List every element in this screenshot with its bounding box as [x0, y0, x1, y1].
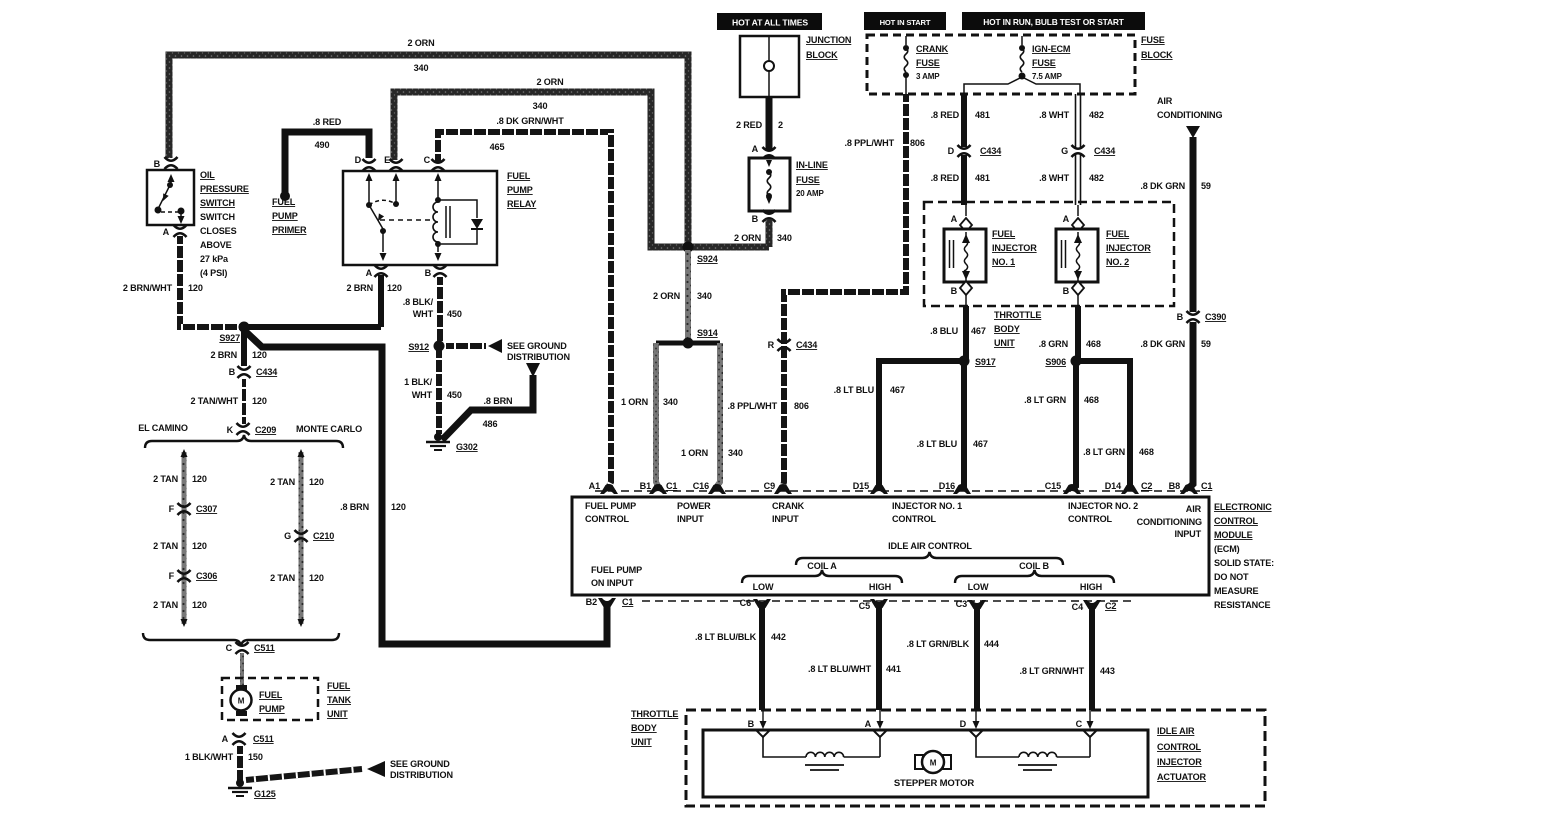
svg-text:443: 443: [1100, 666, 1115, 676]
label 120 (.8 BRN): [391, 502, 406, 512]
svg-text:PRESSURE: PRESSURE: [200, 184, 249, 194]
label FUEL (inj 1): [992, 229, 1016, 239]
label 340 (right drop): [728, 448, 743, 458]
svg-text:C5: C5: [859, 601, 870, 611]
svg-text:A1: A1: [589, 481, 600, 491]
svg-text:PUMP: PUMP: [507, 185, 533, 195]
label 2 TAN (EC lower): [153, 600, 178, 610]
svg-text:HOT IN START: HOT IN START: [880, 18, 931, 27]
svg-text:UNIT: UNIT: [631, 737, 652, 747]
svg-text:2 TAN: 2 TAN: [153, 541, 178, 551]
connector C390 (B): [1177, 311, 1227, 323]
svg-text:WHT: WHT: [412, 390, 433, 400]
svg-text:ON INPUT: ON INPUT: [591, 578, 634, 588]
terminal C of relay: [424, 155, 445, 171]
label MODULE: [1214, 530, 1253, 540]
oil pressure switch lower arrow: [178, 211, 185, 224]
terminal A of in-line fuse: [752, 144, 776, 159]
label WHT (relay B): [413, 309, 434, 319]
label (ECM): [1214, 544, 1240, 554]
label AIR CONDITIONING INPUT: [1137, 504, 1202, 539]
label 1 ORN (left drop): [621, 397, 648, 407]
label ELECTRONIC: [1214, 502, 1272, 512]
label INJECTOR (actuator): [1157, 757, 1202, 767]
injector assembly dashed box: [924, 202, 1174, 306]
label 467 (.8 BLU): [971, 326, 986, 336]
svg-text:FUEL: FUEL: [507, 171, 531, 181]
svg-text:120: 120: [391, 502, 406, 512]
svg-text:A: A: [752, 144, 759, 154]
svg-text:BLOCK: BLOCK: [1141, 50, 1173, 60]
wire .8 LT BLU 467 (S917 to D15): [879, 361, 964, 486]
label 467 (D16): [973, 439, 988, 449]
svg-text:SWITCH: SWITCH: [200, 198, 235, 208]
label CLOSES: [200, 226, 237, 236]
svg-text:.8 LT BLU: .8 LT BLU: [917, 439, 958, 449]
label CONTROL (actuator): [1157, 742, 1202, 752]
svg-text:.8 LT BLU/WHT: .8 LT BLU/WHT: [808, 664, 872, 674]
svg-text:D: D: [960, 719, 967, 729]
svg-text:EL CAMINO: EL CAMINO: [138, 423, 188, 433]
label 1 ORN (right drop): [681, 448, 708, 458]
label 120 (S927 drop): [252, 350, 267, 360]
label 443: [1100, 666, 1115, 676]
svg-text:2 BRN: 2 BRN: [346, 283, 373, 293]
arrow to ground distribution (S912): [488, 339, 502, 353]
brace COIL B: [955, 570, 1114, 583]
terminal D of relay: [355, 155, 376, 171]
ECM terminal C9: [764, 481, 792, 494]
label 2 TAN (EC upper): [153, 474, 178, 484]
label .8 RED (upper): [931, 110, 960, 120]
label 1 BLK/ (G302): [404, 377, 433, 387]
svg-text:COIL B: COIL B: [1019, 561, 1049, 571]
svg-text:1 BLK/: 1 BLK/: [404, 377, 433, 387]
actuator coil B core: [1018, 765, 1057, 770]
label 2 ORN (relay E run): [536, 77, 563, 87]
label INJECTOR NO. 1 CONTROL: [892, 501, 962, 524]
svg-text:INJECTOR: INJECTOR: [1106, 243, 1151, 253]
label IGN-ECM: [1032, 44, 1070, 54]
wire .8 BLK/WHT 450 (relay B to S912): [437, 277, 443, 341]
label 340 (left drop): [663, 397, 678, 407]
label .8 LT GRN/BLK: [906, 639, 969, 649]
label .8 DK GRN (upper): [1140, 181, 1185, 191]
svg-text:HOT IN RUN, BULB TEST OR START: HOT IN RUN, BULB TEST OR START: [983, 17, 1125, 27]
label 486: [483, 419, 498, 429]
relay diode: [471, 219, 483, 229]
label 3 AMP: [916, 72, 940, 81]
svg-text:.8 LT GRN: .8 LT GRN: [1024, 395, 1066, 405]
svg-text:THROTTLE: THROTTLE: [631, 709, 678, 719]
label 120 (2 BRN/WHT): [188, 283, 203, 293]
svg-text:CONTROL: CONTROL: [1214, 516, 1259, 526]
wire 2 TAN (Monte Carlo drop): [298, 449, 305, 627]
svg-text:.8 RED: .8 RED: [931, 110, 960, 120]
label FUEL (tank unit): [327, 681, 351, 691]
svg-text:ACTUATOR: ACTUATOR: [1157, 772, 1207, 782]
svg-text:S927: S927: [219, 333, 240, 343]
label 1 BLK/WHT (G125): [185, 752, 234, 762]
wire 1 BLK/WHT 150 (to G125): [237, 746, 243, 781]
label 120 (EC mid): [192, 541, 207, 551]
actuator terminal C: [1076, 710, 1097, 737]
svg-text:.8 DK GRN: .8 DK GRN: [1140, 339, 1185, 349]
label RESISTANCE: [1214, 600, 1271, 610]
svg-text:FUSE: FUSE: [1141, 35, 1165, 45]
svg-text:C: C: [226, 643, 233, 653]
label .8 WHT (lower): [1039, 173, 1070, 183]
svg-text:A: A: [951, 214, 958, 224]
label 120 (2 TAN/WHT): [252, 396, 267, 406]
label INJECTOR NO. 2 CONTROL: [1068, 501, 1138, 524]
label DISTRIBUTION (G125): [390, 770, 453, 780]
label 120 (EC lower): [192, 600, 207, 610]
label EL CAMINO: [138, 423, 188, 433]
svg-text:G125: G125: [254, 789, 276, 799]
svg-text:B: B: [1177, 312, 1184, 322]
svg-text:441: 441: [886, 664, 901, 674]
actuator coil B: [976, 737, 1090, 757]
svg-text:FUEL PUMP: FUEL PUMP: [591, 565, 642, 575]
ground distribution stub (S912): [446, 343, 486, 349]
label A (injector 2): [1063, 214, 1070, 224]
svg-text:G: G: [284, 531, 291, 541]
label IDLE AIR: [1157, 726, 1195, 736]
svg-text:340: 340: [533, 101, 548, 111]
svg-text:BODY: BODY: [994, 324, 1020, 334]
svg-text:B: B: [752, 214, 759, 224]
label 441: [886, 664, 901, 674]
label 340 (fuse B): [777, 233, 792, 243]
wire 1 ORN 340 (S914 to C16): [717, 343, 720, 486]
wire 1 BLK/WHT 450 (S912 to G302): [436, 350, 442, 434]
wire 2 RED 2 (junction block to fuse): [766, 98, 773, 150]
relay wire to B: [435, 244, 442, 261]
svg-text:806: 806: [794, 401, 809, 411]
svg-text:450: 450: [447, 309, 462, 319]
relay dashed link to coil: [380, 219, 432, 221]
relay D contact: [366, 173, 373, 208]
svg-text:S912: S912: [408, 342, 429, 352]
relay E contact: [393, 173, 400, 207]
ECM terminal C16: [693, 481, 726, 494]
label .8 DK GRN (lower): [1140, 339, 1185, 349]
stepper motor: [915, 751, 951, 773]
svg-text:SEE GROUND: SEE GROUND: [507, 341, 567, 351]
ECM terminal D16: [939, 481, 971, 494]
svg-text:468: 468: [1086, 339, 1101, 349]
svg-text:INJECTOR NO. 2: INJECTOR NO. 2: [1068, 501, 1138, 511]
label S914: [697, 328, 719, 338]
svg-text:340: 340: [663, 397, 678, 407]
relay dashed arc D-E: [369, 200, 396, 205]
label .8 LT GRN (D14): [1083, 447, 1125, 457]
wire .8 LT BLU/BLK 442 (C6): [759, 607, 765, 710]
svg-text:FUEL: FUEL: [327, 681, 351, 691]
svg-text:2 TAN: 2 TAN: [153, 474, 178, 484]
label 20 AMP: [796, 189, 825, 198]
oil pressure switch box: [147, 170, 194, 225]
label S924: [697, 254, 719, 264]
svg-text:.8 LT GRN/BLK: .8 LT GRN/BLK: [906, 639, 969, 649]
relay coil bottom dot: [435, 241, 441, 247]
svg-text:JUNCTION: JUNCTION: [806, 35, 851, 45]
wire 2 ORN 340 (junction block feed, top run): [169, 55, 688, 244]
ECM terminal C3: [956, 599, 986, 610]
label 120 (EC upper): [192, 474, 207, 484]
terminal A of relay: [366, 265, 388, 278]
label 2 BRN/WHT: [123, 283, 173, 293]
svg-text:INPUT: INPUT: [1174, 529, 1201, 539]
label 481 (upper): [975, 110, 990, 120]
svg-text:C1: C1: [1201, 481, 1212, 491]
actuator coil A: [763, 737, 880, 757]
label IN-LINE: [796, 160, 828, 170]
connector C210 (G): [284, 530, 334, 542]
banner HOT AT ALL TIMES: [717, 13, 822, 30]
label PRESSURE: [200, 184, 249, 194]
svg-text:C434: C434: [1094, 146, 1116, 156]
svg-text:FUEL: FUEL: [992, 229, 1016, 239]
svg-text:FUSE: FUSE: [1032, 58, 1056, 68]
label RELAY (relay): [507, 199, 536, 209]
svg-text:M: M: [238, 697, 245, 706]
svg-text:PRIMER: PRIMER: [272, 225, 307, 235]
label 806 (lower): [794, 401, 809, 411]
svg-text:120: 120: [192, 600, 207, 610]
label S927: [219, 333, 240, 343]
label THROTTLE (tbu lower): [631, 709, 678, 719]
actuator terminal A: [865, 710, 887, 737]
label CRANK: [916, 44, 949, 54]
label DISTRIBUTION (S912): [507, 352, 570, 362]
label CRANK INPUT: [772, 501, 805, 524]
label FUEL (primer): [272, 197, 296, 207]
svg-text:DISTRIBUTION: DISTRIBUTION: [507, 352, 570, 362]
relay coil top dot: [435, 197, 441, 203]
ECM box: [572, 497, 1209, 595]
svg-text:CONTROL: CONTROL: [892, 514, 937, 524]
label 481 (lower): [975, 173, 990, 183]
label .8 LT BLU/WHT: [808, 664, 872, 674]
label 2 ORN (S924-S914): [653, 291, 680, 301]
label FUEL (relay): [507, 171, 531, 181]
svg-text:C1: C1: [666, 481, 677, 491]
in-line fuse element: [766, 160, 772, 204]
svg-text:A: A: [366, 268, 373, 278]
fuel pump relay box: [343, 171, 497, 265]
label SWITCH: [200, 212, 235, 222]
svg-text:.8 GRN: .8 GRN: [1039, 339, 1068, 349]
svg-text:UNIT: UNIT: [994, 338, 1015, 348]
svg-text:.8 PPL/WHT: .8 PPL/WHT: [844, 138, 894, 148]
svg-text:FUSE: FUSE: [796, 175, 820, 185]
ground distribution arrow (down): [526, 363, 540, 377]
svg-text:RESISTANCE: RESISTANCE: [1214, 600, 1271, 610]
svg-text:444: 444: [984, 639, 1000, 649]
label 468 (D14): [1139, 447, 1154, 457]
svg-text:467: 467: [971, 326, 986, 336]
label UNIT (tank unit): [327, 709, 348, 719]
label 27 kPa: [200, 254, 229, 264]
label STEPPER MOTOR: [894, 778, 975, 789]
svg-text:SEE GROUND: SEE GROUND: [390, 759, 450, 769]
svg-text:.8 LT GRN: .8 LT GRN: [1083, 447, 1125, 457]
ECM terminal D14: [1105, 481, 1153, 494]
svg-text:NO. 2: NO. 2: [1106, 257, 1129, 267]
svg-text:2 BRN/WHT: 2 BRN/WHT: [123, 283, 173, 293]
label INJECTOR (inj 1): [992, 243, 1037, 253]
svg-text:D15: D15: [853, 481, 869, 491]
relay armature: [369, 205, 384, 229]
svg-text:481: 481: [975, 110, 990, 120]
svg-text:INPUT: INPUT: [772, 514, 799, 524]
svg-text:F: F: [169, 504, 175, 514]
svg-text:D16: D16: [939, 481, 955, 491]
svg-text:C434: C434: [256, 367, 278, 377]
svg-text:B8: B8: [1169, 481, 1180, 491]
wire .8 DK GRN 59 (C390 to B8): [1189, 322, 1193, 488]
svg-text:.8 WHT: .8 WHT: [1039, 173, 1070, 183]
svg-text:467: 467: [890, 385, 905, 395]
svg-text:806: 806: [910, 138, 925, 148]
svg-text:465: 465: [490, 142, 505, 152]
connector C434 (D): [948, 145, 1003, 157]
wire .8 LT GRN/WHT 443 (C4): [1089, 607, 1095, 710]
label .8 PPL/WHT (lower): [727, 401, 777, 411]
svg-text:1 ORN: 1 ORN: [621, 397, 648, 407]
ECM terminal dashed line (bottom): [642, 600, 1135, 602]
label .8 LT BLU (D16): [917, 439, 958, 449]
svg-text:1 BLK/WHT: 1 BLK/WHT: [185, 752, 234, 762]
svg-text:C: C: [1076, 719, 1083, 729]
label FUEL PUMP ON INPUT: [591, 565, 642, 588]
svg-text:.8 WHT: .8 WHT: [1039, 110, 1070, 120]
wire .8 BLU 467 (injector 1 B down): [963, 306, 969, 359]
svg-text:A: A: [865, 719, 872, 729]
label SEE GROUND (S912): [507, 341, 567, 351]
svg-text:C3: C3: [956, 599, 967, 609]
svg-text:59: 59: [1201, 181, 1211, 191]
svg-text:C2: C2: [1141, 481, 1152, 491]
svg-text:120: 120: [387, 283, 402, 293]
label OIL: [200, 170, 215, 180]
junction block box: [740, 36, 799, 97]
label .8 LT BLU/BLK: [695, 632, 757, 642]
svg-text:CONDITIONING: CONDITIONING: [1137, 517, 1202, 527]
terminal A of oil pressure switch: [163, 225, 187, 237]
svg-text:K: K: [227, 425, 234, 435]
wire tank feed (C511 to fuel pump): [240, 653, 244, 688]
svg-text:INJECTOR: INJECTOR: [992, 243, 1037, 253]
air conditioning arrow: [1186, 126, 1200, 138]
svg-text:2 ORN: 2 ORN: [536, 77, 563, 87]
svg-text:.8 BLK/: .8 BLK/: [403, 297, 434, 307]
svg-text:G: G: [1061, 146, 1068, 156]
svg-text:BODY: BODY: [631, 723, 657, 733]
relay armature dot: [380, 228, 386, 234]
label IDLE AIR CONTROL: [888, 541, 972, 551]
svg-text:2 ORN: 2 ORN: [407, 38, 434, 48]
svg-text:340: 340: [414, 63, 429, 73]
label FUSE (crank): [916, 58, 940, 68]
svg-text:SWITCH: SWITCH: [200, 212, 235, 222]
label FUEL (pump): [259, 690, 283, 700]
connector C511 (C): [226, 642, 275, 654]
svg-text:THROTTLE: THROTTLE: [994, 310, 1041, 320]
svg-text:2 TAN: 2 TAN: [153, 600, 178, 610]
ECM terminal A1: [589, 481, 618, 494]
label THROTTLE (tbu upper): [994, 310, 1041, 320]
svg-text:OIL: OIL: [200, 170, 215, 180]
svg-text:20 AMP: 20 AMP: [796, 189, 825, 198]
idle air actuator box: [703, 730, 1148, 797]
label 2 TAN (MC lower): [270, 573, 295, 583]
svg-text:IGN-ECM: IGN-ECM: [1032, 44, 1070, 54]
banner HOT IN RUN BULB TEST OR START: [962, 12, 1145, 30]
svg-text:B1: B1: [640, 481, 651, 491]
svg-text:120: 120: [192, 541, 207, 551]
label .8 BRN (120): [340, 502, 369, 512]
label AIR: [1157, 96, 1173, 106]
svg-text:C434: C434: [980, 146, 1002, 156]
terminal E of relay: [384, 155, 402, 171]
svg-text:POWER: POWER: [677, 501, 711, 511]
label NO. 2: [1106, 257, 1129, 267]
label S917: [975, 357, 996, 367]
ECM terminal C6: [740, 598, 771, 609]
svg-text:120: 120: [309, 477, 324, 487]
label 2 TAN (EC mid): [153, 541, 178, 551]
ign-ecm fuse: [1019, 36, 1026, 80]
fuel injector no. 1: [944, 205, 986, 306]
brace (top, under C209): [145, 435, 343, 448]
label .8 WHT (upper): [1039, 110, 1070, 120]
svg-text:STEPPER MOTOR: STEPPER MOTOR: [894, 778, 975, 789]
label 468 (.8 GRN): [1086, 339, 1101, 349]
label .8 LT GRN (C15): [1024, 395, 1066, 405]
svg-text:E: E: [384, 155, 390, 165]
label A (injector 1): [951, 214, 958, 224]
label 467 (D15): [890, 385, 905, 395]
actuator coil A core: [805, 765, 844, 770]
svg-text:120: 120: [252, 396, 267, 406]
svg-text:S917: S917: [975, 357, 996, 367]
label UNIT (tbu lower): [631, 737, 652, 747]
svg-text:B: B: [229, 367, 236, 377]
label 120 (MC upper): [309, 477, 324, 487]
label INJECTOR (inj 2): [1106, 243, 1151, 253]
svg-text:(ECM): (ECM): [1214, 544, 1240, 554]
label SOLID STATE:: [1214, 558, 1274, 568]
label 490: [315, 140, 330, 150]
fuse block dashed box: [867, 35, 1135, 94]
label 59 (upper): [1201, 181, 1211, 191]
svg-text:B: B: [1063, 286, 1070, 296]
svg-text:.8 DK GRN: .8 DK GRN: [1140, 181, 1185, 191]
wire 1 ORN 340 (S914 to B1): [656, 343, 658, 486]
label BODY (tbu lower): [631, 723, 657, 733]
label 482 (lower): [1089, 173, 1104, 183]
svg-text:C4: C4: [1072, 602, 1084, 612]
ECM terminal C5: [859, 599, 888, 611]
label DO NOT: [1214, 572, 1249, 582]
svg-text:120: 120: [192, 474, 207, 484]
label ACTUATOR: [1157, 772, 1207, 782]
svg-text:468: 468: [1139, 447, 1154, 457]
svg-text:3 AMP: 3 AMP: [916, 72, 940, 81]
